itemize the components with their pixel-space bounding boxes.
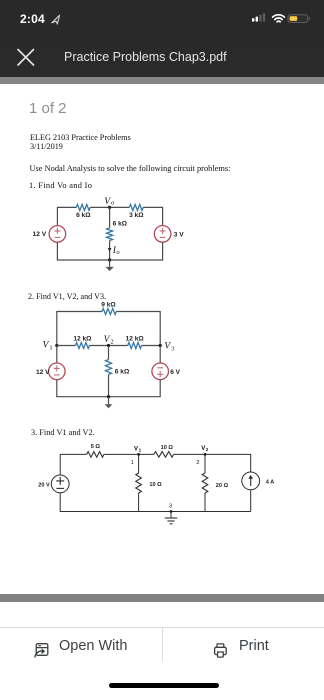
label 2 (c3)	[196, 460, 199, 466]
wire top rail right (c1)	[143, 206, 162, 208]
resistor 10 Ohm horizontal (c3)	[154, 452, 174, 458]
toolbar print icon	[215, 644, 227, 657]
label 20 V (c3)	[38, 482, 50, 488]
wire resistor to bottom rail (c1)	[109, 241, 111, 261]
resistor 6k vertical (c1)	[107, 228, 113, 241]
wire top rail left (c1)	[57, 206, 76, 208]
resistor 5 Ohm horizontal (c3)	[87, 452, 104, 458]
svg-text:5 Ω: 5 Ω	[91, 444, 101, 450]
label 5 Ohm (c3)	[91, 444, 101, 450]
node bottom junction dot (c2)	[107, 395, 110, 398]
label 6 kOhm vertical (c1)	[113, 220, 128, 227]
svg-text:1: 1	[49, 344, 52, 351]
wire V1 down (c3)	[138, 454, 140, 473]
label 1 (c3)	[131, 460, 134, 466]
resistor 9k horizontal (c2)	[102, 309, 116, 315]
svg-text:6 kΩ: 6 kΩ	[76, 212, 91, 219]
svg-text:3 V: 3 V	[174, 231, 184, 238]
label 6 kOhm vertical (c2)	[115, 368, 130, 375]
label 6 kOhm horizontal (c1)	[76, 212, 91, 219]
svg-text:3 kΩ: 3 kΩ	[129, 212, 144, 219]
svg-text:9 kΩ: 9 kΩ	[101, 301, 116, 308]
label 9 kOhm (c2)	[101, 301, 116, 308]
label 12 V (c2)	[36, 369, 50, 376]
wire left vertical upper (c2)	[56, 311, 58, 346]
svg-text:1: 1	[139, 448, 142, 453]
resistor 20 Ohm vertical (c3)	[202, 473, 208, 493]
node 3 junction dot (c3)	[170, 510, 173, 513]
label V2 (c2)	[104, 335, 114, 346]
label V1 node (c3)	[134, 446, 142, 452]
wire V2 down (c3)	[204, 454, 206, 473]
ground three-bar (c3)	[165, 512, 177, 524]
resistor 12k left (c2)	[76, 343, 90, 349]
svg-text:4 A: 4 A	[266, 480, 275, 486]
resistor 10 Ohm vertical (c3)	[136, 473, 142, 493]
wire left vertical upper (c3)	[59, 454, 61, 475]
node V2 dot (c2)	[107, 344, 110, 347]
wire top rail left (c2)	[57, 311, 102, 313]
svg-text:o: o	[111, 200, 115, 207]
svg-text:o: o	[116, 249, 120, 256]
svg-text:10 Ω: 10 Ω	[161, 445, 174, 451]
wire right vertical upper (c3)	[250, 454, 252, 472]
toolbar open-with icon	[35, 644, 48, 658]
label 3 kOhm (c1)	[129, 212, 144, 219]
label V2 node (c3)	[201, 446, 209, 452]
wire right vertical upper (c2)	[159, 311, 161, 346]
wire right vertical (c1)	[162, 207, 164, 226]
voltage source 12V (c1)	[49, 226, 66, 243]
svg-text:12 V: 12 V	[36, 369, 50, 376]
wire top rail middle (c3)	[104, 453, 154, 455]
resistor 6k horizontal (c1)	[76, 204, 90, 210]
svg-text:V: V	[134, 446, 138, 452]
label 12 V (c1)	[33, 231, 47, 238]
voltage source 3V (c1)	[154, 226, 171, 243]
wire top rail left (c3)	[60, 453, 86, 455]
wire middle rail right segment (c2)	[142, 345, 161, 347]
status wifi icon	[273, 15, 285, 22]
wire from node Vo down (c1)	[109, 207, 111, 228]
wire right to bottom rail (c2)	[109, 380, 161, 397]
wire top rail right (c3)	[174, 453, 251, 455]
svg-text:2: 2	[110, 339, 113, 346]
node V1 dot (c2)	[55, 344, 58, 347]
svg-text:6 V: 6 V	[170, 369, 180, 376]
wire top rail middle (c1)	[90, 206, 129, 208]
svg-text:3: 3	[171, 345, 174, 352]
label 3 V (c1)	[174, 231, 184, 238]
label 12 kOhm left (c2)	[73, 336, 92, 343]
svg-text:2: 2	[196, 460, 199, 466]
svg-text:3: 3	[169, 504, 172, 510]
voltage source 6V minus-top (c2)	[152, 363, 169, 380]
svg-text:6 kΩ: 6 kΩ	[113, 220, 128, 227]
ground (c1)	[105, 260, 113, 271]
label 4 A (c3)	[266, 480, 275, 486]
current Io arrowhead (c1)	[108, 248, 112, 252]
label 20 Ohm vertical (c3)	[216, 483, 229, 489]
node bottom junction dot (c1)	[108, 258, 111, 261]
wire right vertical lower (c2)	[159, 346, 161, 364]
wire left vertical (c1)	[56, 207, 58, 226]
wire 10 Ohm to bottom rail (c3)	[138, 493, 140, 512]
svg-text:12 V: 12 V	[33, 231, 47, 238]
label 10 Ohm vertical (c3)	[149, 482, 162, 488]
label Vo (c1)	[104, 197, 115, 207]
svg-text:V: V	[201, 446, 205, 452]
ground (c2)	[105, 397, 113, 409]
svg-text:12 kΩ: 12 kΩ	[126, 336, 145, 343]
status signal bars	[252, 13, 265, 21]
resistor 3k horizontal (c1)	[129, 204, 143, 210]
label Io (c1)	[112, 246, 121, 256]
node Vo dot (c1)	[108, 206, 111, 209]
wire V2 down to resistor (c2)	[108, 346, 110, 360]
svg-text:12 kΩ: 12 kΩ	[73, 336, 92, 343]
svg-text:2: 2	[206, 447, 209, 452]
svg-text:6 kΩ: 6 kΩ	[115, 368, 130, 375]
svg-text:10 Ω: 10 Ω	[149, 482, 162, 488]
label 12 kOhm right (c2)	[126, 336, 145, 343]
wire top rail right (c2)	[116, 311, 160, 313]
wire left lower + bottom rail left (c1)	[57, 242, 109, 260]
label 10 Ohm top (c3)	[161, 445, 174, 451]
label 6 V (c2)	[170, 369, 180, 376]
wire right lower (c3)	[250, 490, 252, 512]
svg-text:1: 1	[131, 460, 134, 466]
wire middle rail center segment (c2)	[89, 345, 127, 347]
label V3 (c2)	[164, 342, 174, 353]
wire 20 Ohm to bottom rail (c3)	[204, 493, 206, 512]
wire right lower + bottom rail right (c1)	[110, 242, 163, 260]
node V3 dot (c2)	[159, 344, 162, 347]
wire middle rail left segment (c2)	[57, 345, 76, 347]
svg-text:20 Ω: 20 Ω	[216, 483, 229, 489]
wire left vertical lower (c2)	[56, 346, 58, 364]
wire left lower + bottom rail (c3)	[60, 493, 251, 512]
status battery	[288, 15, 309, 23]
status location arrow	[52, 15, 60, 24]
current source 4A (c3)	[242, 472, 260, 490]
header close X button	[18, 50, 34, 66]
voltage source 12V (c2)	[49, 363, 66, 380]
node V1 dot (c3)	[137, 453, 140, 456]
label V1 (c2)	[43, 341, 53, 352]
resistor 6k vertical (c2)	[106, 360, 112, 375]
wire left to bottom rail (c2)	[57, 380, 109, 397]
voltage source 20V (c3)	[51, 475, 69, 493]
node V2 dot (c3)	[204, 453, 207, 456]
resistor 12k right (c2)	[128, 343, 142, 349]
wire resistor to bottom rail (c2)	[108, 375, 110, 397]
label node 3 (c3)	[169, 504, 172, 510]
svg-text:20 V: 20 V	[38, 482, 50, 488]
